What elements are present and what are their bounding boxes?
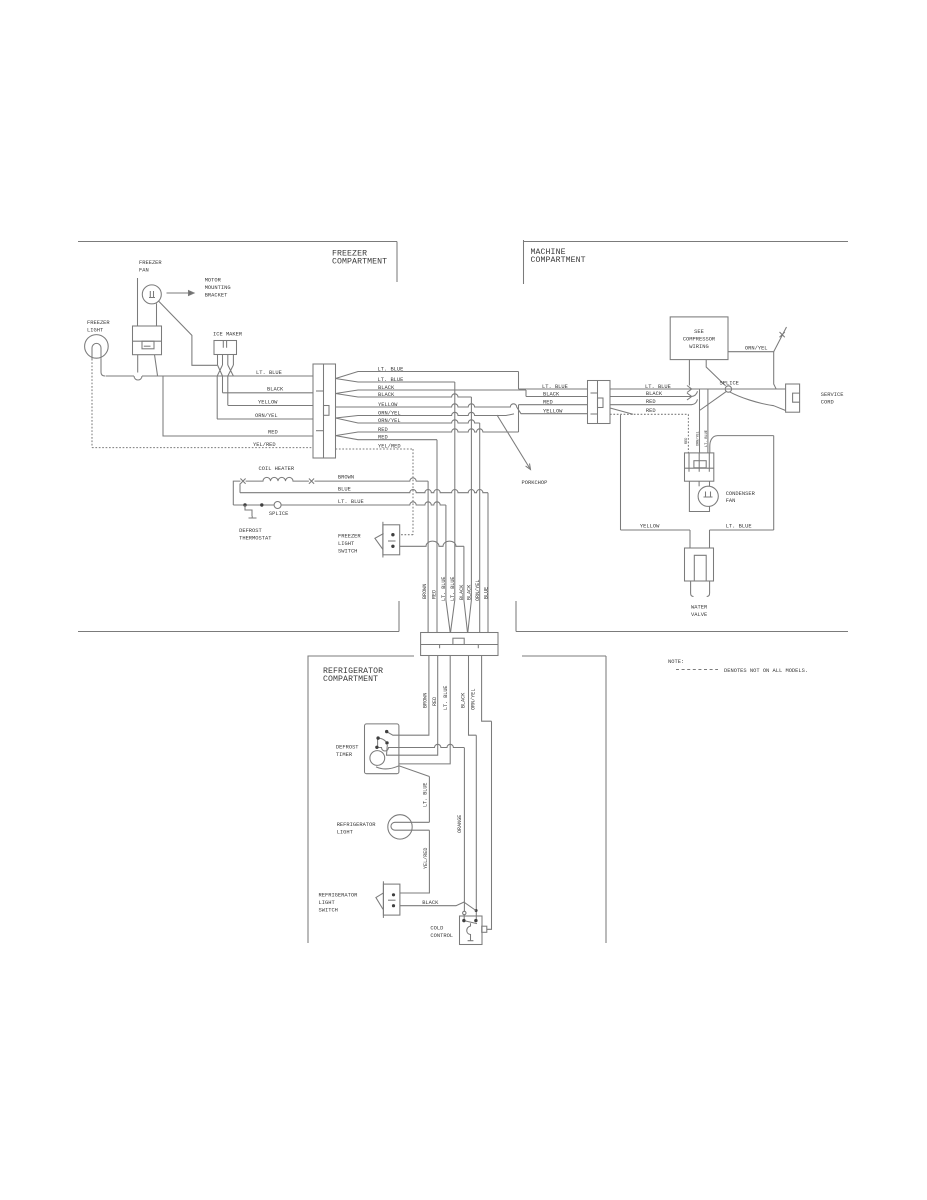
svg-text:WATER: WATER (691, 605, 708, 611)
svg-text:SPLICE: SPLICE (269, 511, 288, 517)
labels left of connector J1 (253, 370, 284, 448)
wire black to cold control (469, 656, 477, 921)
porkchop callout arrow (497, 415, 531, 470)
svg-text:BLACK: BLACK (461, 692, 467, 708)
svg-text:LIGHT: LIGHT (87, 328, 104, 334)
wire yellow from ice maker (228, 405, 313, 407)
svg-text:YEL/RED: YEL/RED (423, 848, 429, 869)
svg-text:COMPARTMENT: COMPARTMENT (323, 675, 378, 684)
cold control (460, 916, 487, 945)
svg-text:BLACK: BLACK (543, 392, 560, 398)
wire red dashed J2 to condenser fan (611, 408, 634, 414)
label FREEZER LIGHT (87, 320, 110, 334)
label REFRIGERATOR LIGHT (337, 822, 377, 836)
wire pair black fanout right of J1 (336, 390, 588, 397)
svg-text:RED: RED (432, 697, 438, 706)
wire fan red drop to connector (163, 376, 313, 436)
svg-text:ORN/YEL: ORN/YEL (471, 689, 477, 710)
labels left of J2 (542, 384, 568, 415)
wire freezer light to lt.blue bus (101, 359, 105, 376)
water valve (685, 530, 714, 597)
junction dots on lt.blue line (243, 503, 246, 506)
wire brown (315, 478, 429, 633)
splice circle (274, 502, 281, 509)
svg-text:BLUE: BLUE (338, 486, 351, 492)
wire pair orn/yel fanout right of J1 (336, 412, 515, 418)
bundle rotated labels above J3 (422, 577, 490, 601)
label CONDENSER FAN (726, 491, 756, 504)
svg-text:BLUE: BLUE (484, 587, 490, 599)
svg-text:BLACK: BLACK (378, 392, 395, 398)
wire pair lt.blue fanout right of J1 (336, 372, 588, 390)
wire black from freezer light switch (399, 541, 467, 632)
compressor wiring box (670, 317, 728, 360)
svg-text:ORN/YEL: ORN/YEL (378, 410, 401, 416)
label SEE COMPRESSOR WIRING (683, 329, 716, 350)
svg-text:VALVE: VALVE (691, 612, 707, 618)
svg-text:LT. BLUE: LT. BLUE (378, 377, 404, 383)
wire black J2 hook (610, 391, 698, 396)
wire lt.blue to defrost timer (399, 656, 450, 764)
svg-text:RED: RED (646, 408, 656, 414)
svg-text:LT. BLUE: LT. BLUE (450, 577, 456, 601)
svg-text:COMPARTMENT: COMPARTMENT (531, 256, 586, 265)
connector J3 (421, 633, 498, 656)
bundle verticals into J3 (436, 440, 438, 633)
refrigerator light switch (376, 881, 400, 918)
svg-text:LT. BLUE: LT. BLUE (441, 577, 447, 601)
rotated labels above fan block (685, 430, 709, 447)
label FREEZER COMPARTMENT (332, 250, 387, 267)
label MACHINE COMPARTMENT (531, 248, 586, 265)
label DEFROST TIMER (336, 745, 359, 759)
frame freezer compartment top border (78, 242, 397, 283)
yellow enclosure wire left/bottom (621, 415, 691, 530)
wire splice to orn/yel fan branch (700, 389, 727, 453)
svg-text:COMPARTMENT: COMPARTMENT (332, 258, 387, 267)
defrost timer (365, 724, 430, 822)
label FREEZER LIGHT SWITCH (338, 534, 361, 555)
svg-text:ORN/YEL: ORN/YEL (695, 431, 700, 446)
svg-text:YEL/RED: YEL/RED (378, 443, 401, 449)
svg-text:LT. BLUE: LT. BLUE (443, 686, 449, 710)
svg-text:BLACK: BLACK (267, 387, 284, 393)
svg-text:DEFROST: DEFROST (239, 528, 262, 534)
svg-text:ORN/YEL: ORN/YEL (475, 580, 481, 601)
svg-text:COIL HEATER: COIL HEATER (259, 466, 295, 472)
wire orn/yel from ice maker (217, 418, 313, 420)
wire blue (240, 484, 488, 633)
svg-text:BROWN: BROWN (422, 584, 428, 599)
svg-text:RED: RED (646, 399, 656, 405)
svg-text:BLACK: BLACK (459, 584, 465, 600)
connector J2 (588, 381, 611, 424)
label REFRIGERATOR LIGHT SWITCH (319, 893, 359, 914)
label COLD CONTROL (430, 926, 453, 940)
ice maker pins crossing (217, 355, 233, 420)
wire brown to defrost timer (388, 656, 429, 736)
svg-text:DENOTES NOT ON ALL MODELS.: DENOTES NOT ON ALL MODELS. (724, 668, 808, 674)
svg-text:LT. BLUE: LT. BLUE (726, 524, 752, 530)
svg-text:MOUNTING: MOUNTING (205, 285, 231, 291)
svg-text:LT. BLUE: LT. BLUE (705, 430, 709, 447)
svg-text:RED: RED (432, 590, 438, 599)
wire orn/yel to cold control side (482, 656, 492, 930)
svg-text:BLACK: BLACK (467, 584, 473, 600)
wire compressor verticals (689, 360, 725, 386)
frame machine compartment top/left border (524, 240, 849, 284)
svg-text:CONTROL: CONTROL (430, 933, 453, 939)
freezer light (85, 335, 109, 359)
wire lt.blue bus freezer left (106, 376, 314, 380)
svg-text:DEFROST: DEFROST (336, 745, 359, 751)
refrigerator light (388, 815, 430, 839)
svg-text:YELLOW: YELLOW (378, 402, 398, 408)
svg-text:NOTE:: NOTE: (668, 659, 684, 665)
note text (668, 659, 808, 674)
label SERVICE CORD (821, 392, 844, 406)
wire fan right leg diagonal (155, 355, 158, 376)
svg-text:MOTOR: MOTOR (205, 278, 222, 284)
coil heater element (233, 477, 314, 505)
svg-text:REFRIGERATOR: REFRIGERATOR (319, 893, 359, 899)
wire lt.blue branch to fan (707, 389, 709, 453)
wire black switch to cold control (400, 902, 476, 910)
svg-text:LT. BLUE: LT. BLUE (338, 499, 364, 505)
label REFRIGERATOR COMPARTMENT (323, 667, 383, 684)
svg-text:ORN/YEL: ORN/YEL (378, 418, 401, 424)
service cord connector (786, 384, 800, 412)
wire motor to ice maker area (159, 301, 218, 365)
svg-text:RED: RED (268, 430, 278, 436)
svg-text:BRACKET: BRACKET (205, 293, 228, 299)
svg-text:LT. BLUE: LT. BLUE (256, 370, 282, 376)
svg-text:RED: RED (685, 438, 689, 444)
svg-text:LT. BLUE: LT. BLUE (542, 384, 568, 390)
wire freezer light dashed (yel/red) (92, 359, 313, 448)
rotated labels below J3 (423, 686, 477, 710)
svg-text:RED: RED (378, 434, 388, 440)
splice node (725, 386, 731, 392)
svg-text:YELLOW: YELLOW (258, 400, 278, 406)
svg-text:BLACK: BLACK (378, 385, 395, 391)
wire yel/red light to switch (400, 830, 430, 893)
frame refrigerator compartment border (308, 656, 606, 943)
wire black from ice maker (223, 392, 314, 394)
svg-text:CORD: CORD (821, 400, 834, 406)
freezer light switch (375, 522, 400, 558)
svg-text:REFRIGERATOR: REFRIGERATOR (337, 822, 377, 828)
svg-text:SERVICE: SERVICE (821, 392, 844, 398)
svg-text:LIGHT: LIGHT (337, 830, 354, 836)
frame machine compartment bottom border (516, 601, 848, 632)
svg-text:RED: RED (378, 427, 388, 433)
svg-text:FAN: FAN (139, 268, 149, 274)
svg-text:TIMER: TIMER (336, 752, 353, 758)
frame freezer compartment bottom border (78, 601, 399, 632)
label FREEZER FAN (139, 260, 162, 274)
labels right of J1 (378, 366, 404, 449)
connector J1 (313, 364, 336, 458)
svg-text:FAN: FAN (726, 498, 736, 504)
wire yel/red dashed right of J1 to freezer light switch (336, 449, 414, 535)
svg-text:RED: RED (543, 400, 553, 406)
svg-text:LIGHT: LIGHT (319, 900, 336, 906)
svg-text:CONDENSER: CONDENSER (726, 491, 756, 497)
label DEFROST THERMOSTAT (239, 528, 272, 542)
svg-text:ORN/YEL: ORN/YEL (745, 346, 768, 352)
svg-text:SPLICE: SPLICE (720, 380, 739, 386)
defrost thermostat symbol (245, 505, 257, 518)
svg-text:BROWN: BROWN (423, 693, 429, 708)
condenser fan motor (689, 481, 718, 511)
wire red to defrost timer (387, 656, 438, 756)
motor mounting bracket callout arrow (167, 291, 195, 296)
wire lt.blue J2 to service cord (610, 388, 786, 390)
ice maker (214, 341, 237, 355)
svg-text:PORKCHOP: PORKCHOP (522, 480, 548, 486)
svg-text:COLD: COLD (430, 926, 443, 932)
labels right of J2 (645, 384, 671, 414)
svg-text:YELLOW: YELLOW (543, 409, 563, 415)
svg-text:LT. BLUE: LT. BLUE (423, 783, 429, 807)
label MOTOR MOUNTING BRACKET (205, 278, 231, 299)
svg-text:SWITCH: SWITCH (338, 549, 357, 555)
svg-text:ORANGE: ORANGE (457, 815, 463, 833)
wire red J2 hook (610, 399, 698, 404)
wire compressor box to orn/yel splice X (728, 327, 787, 389)
svg-text:THERMOSTAT: THERMOSTAT (239, 536, 272, 542)
wire fan left leg (137, 355, 139, 373)
svg-text:LT. BLUE: LT. BLUE (378, 366, 404, 372)
freezer fan motor (142, 285, 161, 304)
svg-text:SWITCH: SWITCH (319, 908, 338, 914)
svg-text:FREEZER: FREEZER (338, 534, 361, 540)
label WATER VALVE (691, 605, 708, 619)
svg-text:ORN/YEL: ORN/YEL (255, 413, 278, 419)
svg-text:ICE MAKER: ICE MAKER (213, 332, 243, 338)
svg-text:SEE: SEE (694, 329, 704, 335)
svg-text:BLACK: BLACK (422, 900, 439, 906)
chevron connector marks (687, 386, 692, 401)
condenser fan connector block (685, 453, 714, 481)
lt.blue enclosure wire right/top (710, 436, 774, 530)
wire orange from timer to cold control (377, 744, 464, 920)
wire pair red fanout right of J1 (336, 405, 588, 436)
wire lt. blue heater line with splice (233, 502, 450, 633)
svg-text:WIRING: WIRING (689, 344, 708, 350)
svg-text:YELLOW: YELLOW (640, 524, 660, 530)
svg-text:FREEZER: FREEZER (139, 260, 162, 266)
wire yellow through (336, 404, 588, 414)
svg-text:BROWN: BROWN (338, 475, 354, 481)
svg-text:LIGHT: LIGHT (338, 541, 355, 547)
freezer fan box (133, 278, 162, 355)
svg-text:FREEZER: FREEZER (87, 320, 110, 326)
wire splice to service cord lower (730, 392, 786, 411)
svg-text:YEL/RED: YEL/RED (253, 442, 276, 448)
svg-text:COMPRESSOR: COMPRESSOR (683, 337, 716, 343)
